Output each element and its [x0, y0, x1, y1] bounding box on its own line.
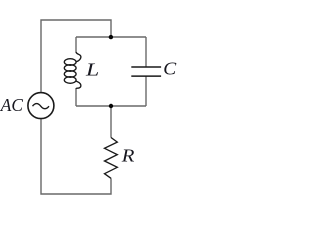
wire tank bottom rail — [76, 105, 146, 107]
inductor L entry hook — [76, 52, 81, 62]
junction node dot top — [109, 35, 113, 39]
AC source sine wave — [33, 104, 50, 109]
capacitor C top plate — [131, 66, 161, 68]
svg-text:R: R — [121, 147, 135, 166]
inductor L coil turn 4 — [64, 77, 76, 84]
inductor L exit hook — [76, 81, 81, 89]
wire capacitor branch bottom lead — [145, 76, 147, 106]
junction node dot bottom — [109, 104, 113, 108]
svg-text:C: C — [163, 59, 176, 79]
inductor L coil turn 3 — [64, 71, 76, 78]
svg-text:L: L — [85, 59, 99, 79]
inductor L coil turn 2 — [64, 65, 76, 72]
wire capacitor branch top lead — [145, 37, 147, 67]
capacitor C bottom plate — [131, 75, 161, 77]
wire tank top rail — [76, 36, 146, 38]
svg-text:AC: AC — [0, 95, 23, 115]
wire left + top rail + drop to tank — [41, 20, 111, 92]
inductor L coil turn 1 — [64, 59, 76, 66]
wire resistor bottom lead + bottom rail + left return — [41, 119, 111, 194]
resistor R zigzag — [105, 138, 118, 179]
AC source circle — [28, 93, 54, 119]
wire inductor branch bottom lead — [75, 89, 77, 106]
wire inductor branch top lead — [75, 37, 77, 52]
wire resistor top lead — [110, 106, 112, 138]
